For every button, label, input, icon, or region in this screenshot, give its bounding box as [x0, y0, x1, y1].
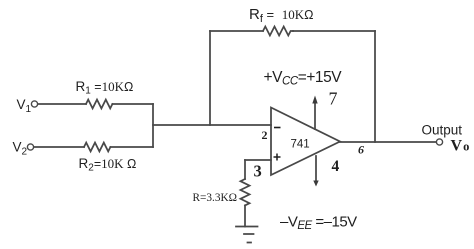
pin 4 arrowhead [313, 181, 318, 187]
resistor R1 [86, 100, 112, 109]
svg-text:Output: Output [422, 123, 463, 138]
svg-text:3: 3 [254, 162, 262, 181]
svg-text:7: 7 [329, 89, 338, 109]
terminal V2 [27, 144, 33, 150]
op-amp plus sign pin 3 [274, 156, 281, 158]
svg-text:Vo: Vo [451, 138, 470, 155]
wire pin 3 vertical [244, 160, 246, 179]
svg-text:741: 741 [291, 139, 310, 151]
svg-text:R1 =10KΩ: R1 =10KΩ [76, 79, 134, 97]
resistor R2 [84, 143, 110, 152]
svg-text:R=3.3KΩ: R=3.3KΩ [193, 192, 238, 204]
terminal V1 [31, 101, 37, 107]
svg-text:2: 2 [262, 128, 268, 142]
op-amp U1 triangle [271, 108, 340, 176]
wire R1 to junction [112, 103, 153, 105]
resistor R 3.3K [241, 179, 250, 205]
svg-text:6: 6 [358, 143, 364, 157]
pin 7 arrowhead [312, 96, 317, 104]
ground bar 1 [236, 226, 258, 228]
wire output [340, 141, 437, 143]
wire pin 3 horizontal [245, 159, 271, 161]
wire summing node to pin 2 [153, 124, 271, 126]
svg-text:V1: V1 [17, 97, 32, 115]
svg-text:+VCC=+15V: +VCC=+15V [264, 69, 343, 88]
wire feedback top-left segment [210, 30, 263, 32]
svg-text:V2: V2 [13, 140, 28, 158]
svg-text:–VEE =–15V: –VEE =–15V [280, 214, 357, 233]
svg-text:Rf = 10KΩ: Rf = 10KΩ [249, 6, 313, 25]
wire R2 to junction [110, 146, 153, 148]
wire feedback top-right segment [293, 30, 375, 32]
wire feedback left vertical [209, 31, 211, 125]
svg-text:4: 4 [332, 158, 340, 175]
op-amp minus sign pin 2 [274, 127, 281, 129]
ground bar 2 [244, 233, 254, 235]
ground bar 3 [248, 242, 252, 244]
svg-text:R2=10K Ω: R2=10K Ω [79, 156, 137, 174]
pin 7 arrow line [314, 103, 316, 129]
wire V2 input [34, 146, 85, 148]
wire V1 input [38, 103, 87, 105]
wire resistor to ground [244, 205, 246, 226]
pin 4 arrow line [315, 156, 317, 182]
wire junction vertical [152, 104, 154, 147]
wire feedback right vertical [374, 31, 376, 142]
terminal output [436, 139, 442, 145]
resistor Rf [263, 27, 293, 36]
